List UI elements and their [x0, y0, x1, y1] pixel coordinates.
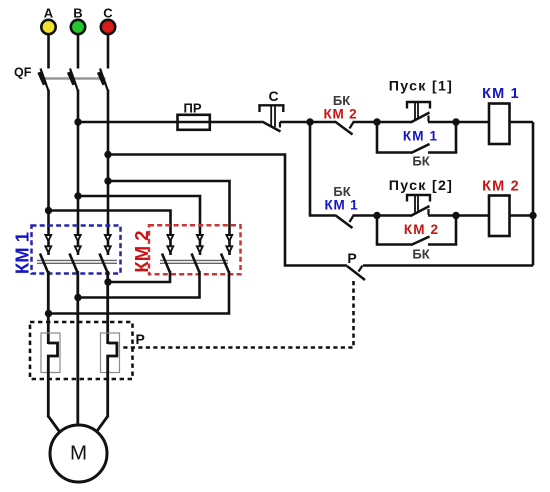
wire phase C vertical bus: [107, 90, 110, 256]
wire motor lead C: [97, 416, 108, 431]
start push-button Пуск [2] (NO): [389, 178, 453, 216]
wire phase B vertical bus: [77, 90, 80, 256]
coil KM2: [482, 179, 520, 237]
thermal relay NC contact P: [347, 250, 365, 280]
thermal relay heater element 2 frame: [101, 333, 120, 373]
wire phase B rail through thermal relay: [76, 271, 79, 425]
svg-text:В: В: [73, 6, 82, 21]
wire from fuse to stop button C: [211, 121, 262, 124]
wire phase A from lamp to QF: [47, 35, 50, 69]
KM1 linkage bar: [37, 260, 117, 263]
thermal relay heater element 1 frame: [41, 333, 60, 373]
svg-text:КМ 1: КМ 1: [325, 198, 359, 213]
lamp A (yellow phase indicator): [41, 6, 55, 35]
wire down from node to rung 2: [310, 122, 335, 216]
thermal relay heater element 1: [48, 343, 57, 418]
svg-text:QF: QF: [14, 66, 32, 80]
svg-text:С: С: [103, 6, 113, 21]
svg-text:Пуск [1]: Пуск [1]: [389, 79, 453, 95]
wire phase A vertical bus: [47, 90, 50, 256]
circuit breaker QF pole C: [99, 69, 108, 92]
svg-text:КМ 1: КМ 1: [12, 232, 33, 274]
wire from P contact to right bus: [363, 264, 533, 267]
KM2 main contact pole 3: [221, 235, 232, 273]
NC interlock contact BK KM2: [324, 93, 358, 135]
wire KM2 pole 3 output to phase A rail: [49, 271, 230, 314]
fan-out wire phase C to KM2 contact 3: [104, 177, 111, 184]
svg-text:С: С: [268, 88, 278, 104]
fan-out wire phase B to KM2 contact 2: [74, 192, 81, 199]
svg-text:Пуск [2]: Пуск [2]: [389, 178, 453, 194]
auxiliary NO contact KM1 (self hold): [403, 129, 438, 169]
KM2 linkage bar: [160, 260, 228, 263]
wire to start button 1: [353, 121, 378, 124]
fuse PR (ПР): [178, 101, 211, 130]
dashed trip link from thermal relay box to P contact: [120, 281, 354, 348]
thermal relay heater element 2: [108, 343, 117, 418]
node phase B rail / KM2 output: [74, 294, 81, 301]
svg-text:КМ 2: КМ 2: [324, 107, 358, 122]
wire rung 1 start: [310, 121, 336, 124]
node phase C rail / KM2 output: [104, 278, 111, 285]
contactor KM1 enclosure (blue dashed): [32, 226, 121, 274]
svg-text:ПР: ПР: [183, 101, 201, 116]
wire from stop button C to node: [280, 121, 310, 124]
wire to start button 2: [353, 214, 378, 217]
KM2 main contact pole 1: [162, 235, 173, 273]
lamp C (red phase indicator): [101, 6, 115, 35]
motor M: [50, 425, 107, 482]
node rung2 right of start button: [452, 212, 459, 219]
circuit breaker QF pole A: [40, 69, 49, 92]
auxiliary NO contact KM2 (self hold): [404, 222, 439, 262]
stop push-button C (NC): [260, 88, 284, 132]
wire start button 1 to node: [428, 121, 456, 124]
start push-button Пуск [1] (NO): [389, 79, 453, 123]
self-hold branch rung 1 right side: [428, 122, 456, 153]
wire to start button 1 left terminal: [377, 121, 412, 124]
node rung1 right of start button: [452, 118, 459, 125]
node feeding both control rungs: [306, 118, 313, 125]
svg-text:КМ 2: КМ 2: [404, 222, 439, 237]
wire from phase C node to control return: [104, 151, 111, 158]
fan-out wire phase A to KM2 contact 1: [45, 207, 52, 214]
node rung1 left of start button: [373, 118, 380, 125]
node coil KM2 output on right bus: [529, 212, 536, 219]
wire phase B from lamp to QF: [77, 35, 80, 69]
wire coil KM1 to right bus: [510, 121, 534, 124]
KM2 main contact pole 2: [192, 235, 203, 273]
svg-text:КМ 2: КМ 2: [131, 230, 152, 272]
wire phase C rail to thermal relay: [106, 271, 109, 344]
self-hold branch rung 2 right side: [428, 216, 456, 245]
node rung2 left of start button: [373, 212, 380, 219]
wire start button 2 to node: [428, 214, 456, 217]
svg-text:А: А: [44, 6, 54, 21]
wire KM2 pole 1 output to phase C rail: [108, 271, 170, 282]
wire phase A rail to thermal relay: [47, 271, 50, 344]
wire coil KM2 to right bus: [510, 214, 534, 217]
svg-text:Р: Р: [347, 250, 356, 266]
svg-text:БК: БК: [412, 247, 429, 262]
KM1 main contact pole A: [40, 235, 51, 273]
self-hold branch rung 1: [377, 122, 412, 153]
node on phase B feeding control circuit: [74, 118, 81, 125]
wire to coil KM2: [456, 214, 489, 217]
svg-text:КМ 1: КМ 1: [482, 86, 520, 102]
right vertical return bus: [532, 122, 535, 266]
NC interlock contact BK KM1: [325, 184, 359, 228]
wire KM2 pole 2 output to phase B rail: [78, 271, 200, 298]
wire to start button 2 left terminal: [377, 214, 412, 217]
svg-text:М: М: [70, 442, 87, 465]
wire motor lead A: [48, 416, 59, 431]
coil KM1: [482, 86, 520, 144]
wire from phase B node to fuse: [78, 121, 178, 124]
KM1 main contact pole C: [100, 235, 111, 273]
node phase A rail / KM2 output: [45, 310, 52, 317]
svg-text:КМ 2: КМ 2: [482, 179, 520, 195]
self-hold branch rung 2: [377, 216, 412, 245]
wire to coil KM1: [456, 121, 489, 124]
svg-text:КМ 1: КМ 1: [403, 129, 438, 144]
circuit breaker QF linkage bar: [40, 77, 106, 80]
lamp B (green phase indicator): [71, 6, 85, 35]
thermal relay P enclosure (dashed): [30, 322, 133, 379]
svg-text:Р: Р: [136, 331, 145, 347]
KM1 main contact pole B: [70, 235, 81, 273]
svg-text:БК: БК: [412, 154, 429, 169]
contactor KM2 enclosure (red dashed): [149, 225, 241, 274]
circuit breaker QF pole B: [69, 69, 78, 92]
wire phase C from lamp to QF: [107, 35, 110, 69]
